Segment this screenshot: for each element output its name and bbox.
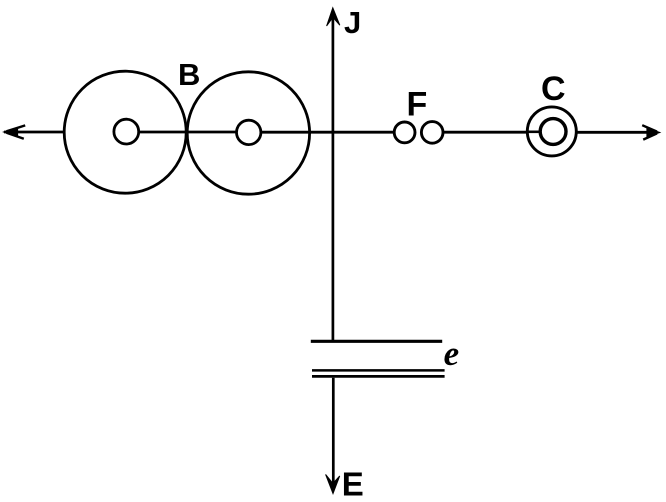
contact F1 small circle [394,122,415,143]
svg-text:B: B [178,57,200,92]
arrowhead: up arrow J [327,8,340,26]
svg-text:F: F [407,86,428,124]
svg-text:J: J [344,5,361,40]
arrowhead: down arrow E [326,474,340,493]
terminal: small circle in left large circle [114,119,139,144]
capacitor e bottom plate lower line [312,375,445,378]
svg-text:C: C [541,70,566,108]
coil B right large circle [187,72,309,194]
terminal: small circle in right large circle [237,120,261,144]
wire: right horizontal lead from C to right arrow [577,131,651,134]
capacitor e top plate [311,340,442,343]
capacitor e bottom plate upper line [312,369,445,372]
svg-text:E: E [342,465,364,502]
wire: left horizontal lead [4,131,63,134]
arrowhead: right arrow of horizontal axis [647,128,660,137]
svg-text:e: e [444,334,460,373]
wire: from F2 contact to C outer circle [443,131,527,134]
wire: short segment inside C between outer and inner circle [527,131,540,134]
coil B left large circle [64,71,186,193]
wire: vertical axis upper segment (J branch) [332,13,335,340]
galvanometer C outer circle [527,107,576,156]
arrowhead: left arrow of horizontal axis [4,128,18,137]
galvanometer C inner circle [540,119,566,145]
wire: between small circle of left coil and small circle of right coil [139,131,237,134]
contact F2 small circle [421,122,443,144]
wire: from right coil small circle to first F contact [261,131,395,134]
wire: vertical axis lower segment (E branch) [332,378,335,488]
